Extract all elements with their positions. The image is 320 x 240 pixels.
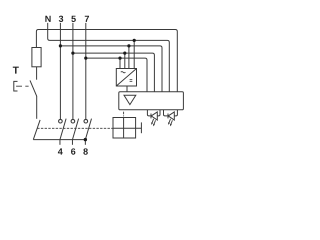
wire stub to rectifier pin 2 — [128, 46, 130, 69]
rectifier U1 box — [116, 69, 136, 87]
wire line L5 from phase 7 tap — [86, 58, 147, 92]
node dot on line L4 — [123, 52, 126, 55]
LED D1 triangle — [151, 112, 157, 120]
node dot on N line L2 — [133, 39, 136, 42]
wire stub to rectifier pin 4 — [119, 58, 121, 68]
wire phase 7 feeder — [85, 23, 87, 120]
label 7 — [85, 16, 89, 22]
LED D1 wire right — [157, 110, 160, 116]
wire line L3 from phase 3 tap — [60, 46, 162, 92]
wire phase 3 feeder — [59, 23, 61, 120]
mech dash above trip relay — [123, 112, 125, 115]
LED D1 arrows — [152, 119, 154, 124]
rectifier U1 DC dashes — [130, 80, 133, 82]
wire resistor top lead is part of L1; wire resistor bottom — [36, 67, 38, 80]
LED D1 cathode bar — [150, 114, 152, 119]
label 3 — [59, 16, 63, 22]
LED D2 wire right — [174, 110, 177, 116]
wire test line L1 resistor top to right drop — [36, 30, 177, 92]
test switch blade — [30, 80, 37, 96]
actuator end bar — [140, 122, 142, 133]
LED D1 stub left — [147, 110, 150, 116]
wire rectifier output stub — [126, 86, 128, 92]
blade pole 6 — [72, 119, 78, 140]
node dot on line L3 — [127, 44, 130, 47]
blade pole 8 — [85, 119, 91, 140]
neutral pole blade — [33, 120, 40, 140]
test button actuator — [14, 81, 18, 91]
contact circle pole 8 — [84, 119, 88, 123]
label N — [45, 16, 50, 22]
trip solenoid triangle — [124, 95, 136, 104]
wire line L4 from phase 5 tap — [73, 53, 154, 92]
trip relay cross vertical — [123, 118, 125, 139]
label 6 — [71, 148, 75, 154]
node dot bus pole 8 — [84, 138, 87, 141]
node dot phase 3 tap — [59, 44, 62, 47]
wire below test switch — [36, 96, 38, 119]
terminal tail 4 — [59, 140, 61, 145]
node dot on line L5 — [118, 57, 121, 60]
terminal tail 6 — [71, 140, 73, 145]
contact circle pole 4 — [59, 119, 63, 123]
blade pole 4 — [60, 119, 66, 140]
node dot phase 5 tap — [71, 52, 74, 55]
mech linkage dashed line — [37, 127, 113, 129]
label 5 — [71, 16, 75, 22]
label T — [13, 67, 19, 74]
electronics block rectangle — [119, 92, 184, 110]
LED D2 stub left — [164, 110, 168, 116]
node dot phase 7 tap — [84, 57, 87, 60]
LED D2 triangle — [168, 112, 174, 120]
contact circle pole 6 — [71, 119, 75, 123]
wire stub to rectifier pin 3 — [124, 53, 126, 68]
wire phase 5 feeder — [72, 23, 74, 120]
bottom bus wire — [33, 139, 85, 141]
mech dot above trip relay — [123, 115, 124, 116]
trip relay cross horizontal with actuator arm — [113, 127, 141, 129]
wire N feeder and line L2 — [48, 23, 170, 92]
rectifier U1 diagonal — [116, 69, 136, 87]
resistor R test — [32, 48, 41, 67]
label 4 — [58, 148, 63, 154]
terminal tail 8 — [84, 140, 86, 145]
rectifier U1 AC tilde — [121, 72, 126, 73]
LED D2 cathode bar — [167, 114, 169, 119]
LED D2 arrows — [169, 119, 171, 124]
mech link test button dashed — [16, 85, 29, 87]
trip relay sensor box — [113, 118, 136, 139]
wire stub to rectifier pin 1 — [133, 40, 135, 68]
label 8 — [83, 148, 87, 154]
